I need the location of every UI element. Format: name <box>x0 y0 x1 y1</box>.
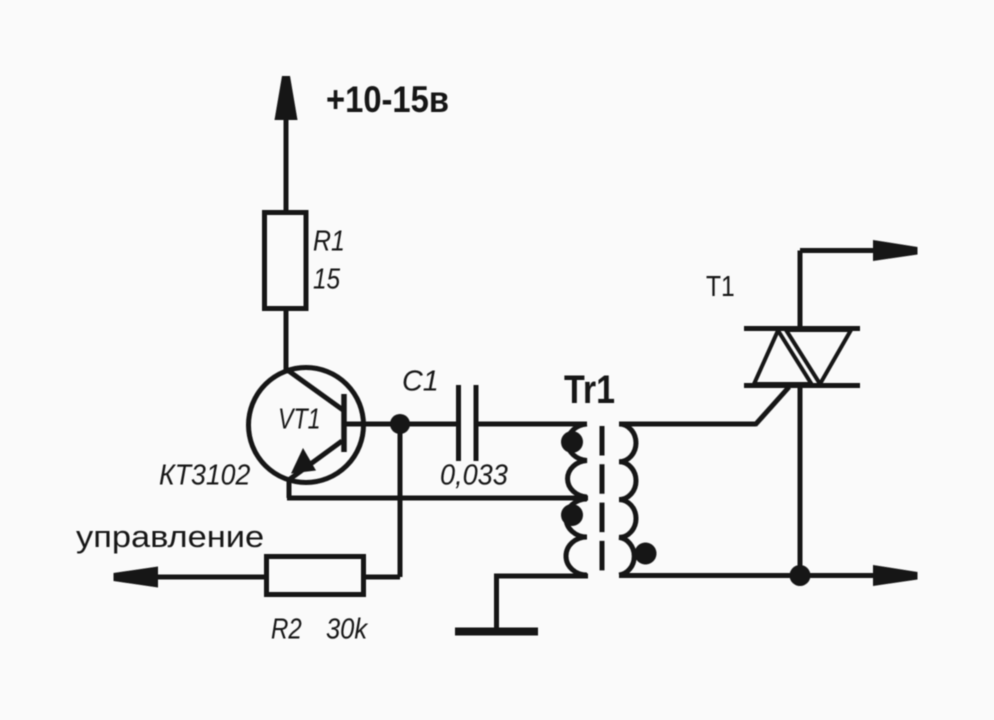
svg-text:R2: R2 <box>271 612 302 645</box>
power arrow +10-15v <box>275 76 298 120</box>
wire node B to bottom right arrow <box>800 573 876 578</box>
wire triac bottom down to node B <box>798 386 803 576</box>
ground <box>455 628 538 636</box>
svg-text:VT1: VT1 <box>278 402 321 435</box>
capacitor C1 left plate <box>456 385 461 461</box>
wire triac top up <box>798 251 803 329</box>
wire to top right arrow <box>800 248 876 253</box>
wire emitter down <box>287 477 292 498</box>
top right output arrow <box>873 240 918 261</box>
svg-text:Tr1: Tr1 <box>564 366 615 411</box>
node A junction dot <box>390 414 410 434</box>
svg-text:КТ3102: КТ3102 <box>159 458 251 490</box>
wire down to ground <box>494 574 499 628</box>
phase dot primary bottom <box>561 504 583 526</box>
transformer Tr1 primary winding top <box>568 424 587 497</box>
transformer Tr1 secondary winding <box>619 424 636 575</box>
wire node A down to R2 <box>398 424 403 577</box>
VT1 base bar <box>341 394 347 452</box>
transistor VT1 circle <box>249 368 364 483</box>
wire power arrow to R1 <box>284 116 289 213</box>
wire base to node A <box>346 422 456 427</box>
wire secondary top to triac gate <box>619 422 756 427</box>
wire C1 to transformer primary top <box>479 422 588 427</box>
wire secondary bottom to node B <box>619 573 800 578</box>
svg-text:R1: R1 <box>313 225 345 257</box>
wire R1 to VT1 collector <box>284 308 289 371</box>
svg-text:C1: C1 <box>402 365 439 397</box>
svg-text:0,033: 0,033 <box>440 459 508 491</box>
bottom right output arrow <box>873 565 918 586</box>
triac T1 bottom bar <box>744 383 860 388</box>
phase dot secondary <box>635 543 657 565</box>
svg-text:15: 15 <box>313 263 340 295</box>
phase dot primary top <box>561 431 583 453</box>
transformer core dashed line <box>600 426 605 571</box>
wire emitter to transformer middle tap <box>287 496 588 501</box>
wire control arrow to R2 <box>156 575 266 580</box>
wire R2 to node A vertical <box>363 575 400 580</box>
resistor R2 <box>267 557 364 595</box>
triac gate diagonal <box>755 387 789 425</box>
svg-text:управление: управление <box>76 519 264 554</box>
VT1 emitter diagonal <box>290 441 342 479</box>
svg-text:T1: T1 <box>706 270 735 302</box>
triac T1 top bar <box>744 326 860 331</box>
resistor R1 <box>265 213 307 309</box>
triac T1 triangle down <box>786 330 851 384</box>
VT1 collector diagonal <box>286 369 343 410</box>
node B junction dot <box>790 565 811 586</box>
control input arrow <box>114 567 159 588</box>
svg-text:30k: 30k <box>326 612 368 645</box>
svg-text:+10-15в: +10-15в <box>326 79 449 120</box>
capacitor C1 right plate <box>474 385 479 461</box>
VT1 emitter arrowhead <box>291 448 316 474</box>
wire primary bottom to ground <box>494 574 588 579</box>
triac T1 triangle up <box>754 331 812 385</box>
transformer Tr1 primary winding bottom <box>566 499 587 575</box>
